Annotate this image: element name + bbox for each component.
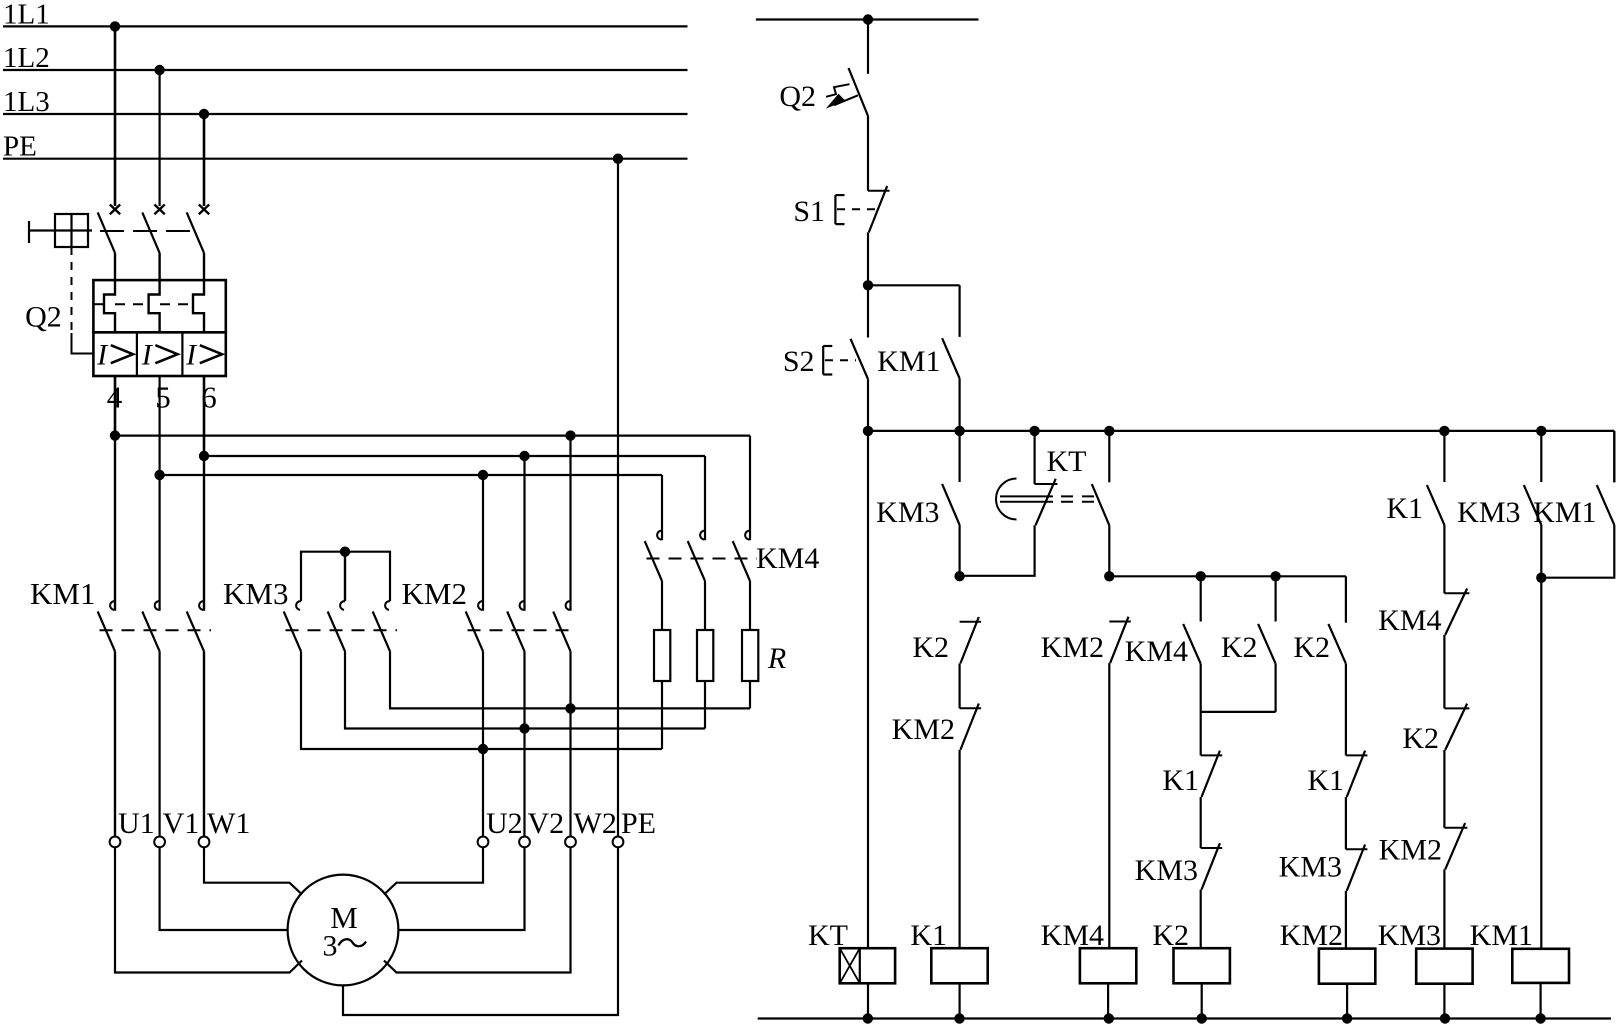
svg-text:KM2: KM2 (402, 576, 467, 611)
terminal number 6 (201, 380, 217, 415)
svg-text:KM4: KM4 (1125, 635, 1188, 668)
time relay KT contact (right) (1092, 431, 1110, 576)
wire motor frame to PE (343, 847, 618, 1015)
breaker Q2 case (93, 280, 225, 376)
svg-text:KM4: KM4 (1041, 919, 1104, 952)
wire phase L2 distribution (160, 475, 662, 540)
svg-text:KM3: KM3 (1135, 854, 1198, 887)
svg-text:KM1: KM1 (30, 576, 95, 611)
relay K2 auxiliary contact (1221, 576, 1276, 712)
node B phase L3 tap (199, 451, 209, 461)
node return rail KT coil (863, 1013, 873, 1023)
breaker Q2 pole 2 release element (149, 280, 160, 332)
svg-text:KM4: KM4 (1378, 604, 1441, 637)
node C phase L2 tap (154, 470, 164, 480)
node rail KM3 branch (954, 426, 964, 436)
breaker Q2 pole 3 fixed contact x-mark (199, 205, 209, 215)
breaker Q2 pole 3 release element (193, 280, 204, 332)
bus 1L3 (3, 86, 688, 118)
start button S2 normally-open contact (783, 285, 868, 431)
wire KM3 left to bus749 (301, 651, 662, 749)
svg-text:S1: S1 (793, 195, 825, 228)
svg-text:W2: W2 (574, 807, 617, 840)
contactor coil KM2 (1280, 919, 1376, 1019)
node phase L2 to KM2 (478, 470, 488, 480)
terminal PE (613, 807, 656, 847)
contactor KM3 auxiliary contact on KM1-coil branch (1457, 431, 1541, 578)
wire sub rail y576 (1109, 576, 1346, 622)
node control supply tap (863, 14, 873, 24)
svg-text:K2: K2 (1293, 631, 1330, 664)
wire W1 to motor (204, 847, 302, 894)
contactor KM3 auxiliary contact (876, 431, 959, 576)
time relay KT delay symbol (996, 479, 1098, 520)
svg-text:R: R (767, 642, 786, 675)
wire U1 to motor (115, 847, 302, 972)
node KM3 star point (340, 547, 350, 557)
wire pole1 to node A (114, 376, 117, 436)
svg-text:3: 3 (323, 930, 338, 963)
svg-text:K2: K2 (1402, 722, 1439, 755)
wire branch to KM1 aux (868, 284, 960, 286)
terminal number 4 (107, 380, 123, 415)
wire phase L1 distribution (115, 436, 750, 541)
wire rail to KT coil (867, 431, 869, 948)
node rail KT right (1104, 426, 1114, 436)
node A phase L1 tap (110, 430, 120, 440)
bus PE (3, 131, 688, 163)
wire KM4/K2 parallel join (1201, 664, 1276, 756)
wire L3 drop to KM2 middle (523, 456, 525, 611)
node on 1L3 (199, 109, 209, 119)
terminal W1 (199, 807, 251, 847)
node sub rail KM4 branch (1196, 571, 1206, 581)
svg-text:KM3: KM3 (876, 496, 939, 529)
contactor KM4 nc contact on KM3-coil branch (1378, 589, 1469, 709)
wire KM3 right to bus708 (390, 651, 750, 708)
wire PE drop (617, 159, 619, 837)
svg-text:KM2: KM2 (892, 713, 955, 746)
svg-text:K1: K1 (1307, 764, 1344, 797)
contactor KM1 holding contact (877, 285, 959, 431)
relay K2 auxiliary contact on KM2-coil branch (1293, 624, 1346, 756)
contactor KM1 main contacts (30, 576, 211, 652)
node rail KM3/KM1 branch (1536, 426, 1546, 436)
node phase L1 to KM2 (565, 430, 575, 440)
breaker Q2 pole 1 fixed contact x-mark (110, 205, 120, 215)
svg-text:V2: V2 (528, 807, 565, 840)
svg-text:S2: S2 (783, 345, 815, 378)
relay K1 auxiliary contact (1386, 431, 1444, 593)
wire KM3 branch to KM1 coil (1540, 578, 1542, 949)
terminal V2 (519, 807, 564, 847)
relay K2 nc contact on KM3-coil branch (1402, 704, 1469, 828)
node on 1L2 (154, 65, 164, 75)
svg-text:KT: KT (1047, 445, 1087, 478)
breaker Q2 release arrow (826, 84, 858, 108)
breaker Q2 pole 1 release element (104, 280, 115, 332)
svg-text:KM2: KM2 (1280, 919, 1343, 952)
wire V2 to motor (398, 847, 524, 930)
wire KM3 star bridge (301, 552, 390, 601)
contactor KM2 nc contact on KM4-coil branch (1041, 617, 1131, 949)
start button S2 operator (823, 346, 856, 375)
wire KM2 outputs to motor terminals (483, 651, 571, 836)
wire pole3 to node B (203, 376, 206, 456)
svg-text:K1: K1 (1162, 764, 1199, 797)
breaker Q2 pole 3 blade (187, 212, 204, 280)
control return rail (758, 1017, 1611, 1019)
svg-text:KM3: KM3 (1279, 851, 1342, 884)
terminal V1 (154, 807, 199, 847)
relay K2 nc contact on K1-coil branch (912, 617, 981, 708)
svg-text:K2: K2 (912, 631, 949, 664)
contactor KM4 auxiliary contact (1125, 576, 1201, 668)
svg-text:K1: K1 (1386, 492, 1423, 525)
breaker Q2 pole linkage (100, 230, 196, 232)
node rail KT column (863, 426, 873, 436)
wire pole2 to node C (159, 376, 161, 475)
svg-text:PE: PE (3, 131, 37, 163)
wire W2 to motor (384, 847, 571, 972)
svg-text:U1: U1 (118, 807, 155, 840)
wire 1L2 to Q2 pole 2 (159, 70, 161, 206)
svg-text:5: 5 (155, 380, 171, 415)
node PE tap (613, 154, 623, 164)
wire KT left bottom link (960, 525, 1035, 576)
node return rail KM4 coil (1104, 1013, 1114, 1023)
contactor coil KM4 (1041, 919, 1137, 1019)
wire U2 to motor (384, 847, 483, 894)
svg-text:W1: W1 (207, 807, 250, 840)
wire L2 drop to KM2 left (482, 475, 484, 611)
node return rail KM1 coil (1535, 1013, 1545, 1023)
relay K1 nc contact on K2-coil branch (1162, 751, 1222, 848)
breaker Q2 overcurrent label I> cell 3 (185, 339, 222, 372)
breaker Q2 overcurrent label I> cell 2 (141, 339, 178, 372)
terminal W2 (565, 807, 617, 847)
svg-text:K1: K1 (910, 919, 947, 952)
wire KM3 mid to bus728 (345, 651, 705, 728)
relay coil K2 (1152, 919, 1230, 1019)
svg-text:KM3: KM3 (1457, 496, 1520, 529)
contactor KM2 nc contact on K1-coil branch (892, 704, 981, 949)
motor M 3-phase (288, 875, 399, 986)
terminal U2 (478, 807, 523, 847)
contactor KM4 main contacts (645, 531, 820, 581)
node return rail K1 coil (954, 1013, 964, 1023)
wire V1 to motor (160, 847, 288, 930)
wire phase L3 distribution (204, 456, 705, 540)
contactor KM2 nc contact on KM3-coil branch (1379, 823, 1468, 949)
breaker Q2 control contact (779, 20, 868, 191)
svg-text:PE: PE (621, 807, 656, 840)
contactor KM3 main contacts (223, 576, 397, 652)
svg-text:KM2: KM2 (1041, 631, 1104, 664)
node return rail KM3 coil (1440, 1013, 1450, 1023)
svg-text:KM4: KM4 (756, 542, 819, 575)
bus 1L1 (3, 0, 688, 31)
wire 1L1 to Q2 pole 1 (114, 26, 117, 206)
wire L1 drop to KM2 right (569, 436, 571, 611)
node KM2 right junction (565, 703, 575, 713)
relay coil K1 (910, 919, 987, 1019)
stop button S1 operator (835, 195, 878, 224)
breaker Q2 pole 2 blade (142, 212, 159, 280)
breaker Q2 pole 2 fixed contact x-mark (154, 205, 164, 215)
contactor coil KM3 (1378, 919, 1473, 1019)
resistor R right (742, 581, 786, 709)
contactor KM3 nc contact on KM2-coil branch (1279, 845, 1368, 949)
resistor R left (654, 581, 670, 749)
svg-text:K2: K2 (1221, 631, 1258, 664)
svg-text:KM3: KM3 (1378, 919, 1441, 952)
node on 1L1 (110, 21, 120, 31)
node KM3/KM1 parallel junction (1536, 573, 1546, 583)
node rail K1 branch (1439, 426, 1449, 436)
breaker Q2 trip linkage (93, 303, 193, 305)
svg-text:U2: U2 (486, 807, 523, 840)
contactor KM1 auxiliary contact (right edge) (1533, 431, 1614, 578)
svg-text:KM2: KM2 (1379, 834, 1442, 867)
svg-text:Q2: Q2 (779, 80, 816, 113)
control supply line (756, 18, 979, 20)
time relay KT delayed contact (left) (1035, 431, 1087, 525)
breaker Q2 overcurrent label I> cell 1 (96, 339, 133, 372)
svg-text:KM1: KM1 (877, 345, 940, 378)
contactor coil KM1 (1470, 919, 1569, 1019)
node sub rail K2 branch (1270, 571, 1280, 581)
control rail (868, 431, 1614, 482)
node phase L3 to KM2 (519, 451, 529, 461)
terminal U1 (110, 807, 155, 847)
contactor KM2 main contacts (402, 576, 578, 652)
svg-text:1L1: 1L1 (3, 0, 50, 31)
bus 1L2 (3, 42, 688, 74)
svg-text:Q2: Q2 (25, 301, 62, 334)
terminal number 5 (155, 380, 171, 415)
wire KM1 outputs to motor terminals (115, 651, 204, 836)
stop button S1 normally-closed contact (793, 186, 889, 285)
wire 1L3 to Q2 pole 3 (203, 114, 206, 206)
relay K1 nc contact on KM2-coil branch (1307, 751, 1367, 850)
svg-text:KM1: KM1 (1470, 919, 1533, 952)
node KM2 mid junction (519, 723, 529, 733)
svg-text:1L3: 1L3 (3, 86, 50, 118)
svg-text:KM1: KM1 (1533, 496, 1596, 529)
svg-text:V1: V1 (163, 807, 200, 840)
node return rail KM2 coil (1342, 1013, 1352, 1023)
time relay coil KT (808, 919, 895, 1019)
svg-text:K2: K2 (1152, 919, 1189, 952)
node KM3/KT junction (954, 571, 964, 581)
breaker Q2 pole 1 blade (98, 212, 115, 280)
circuit breaker Q2 manual operator (25, 214, 93, 354)
resistor R middle (697, 581, 713, 729)
node S1 to S2/KM1 branch (863, 280, 873, 290)
svg-text:KT: KT (808, 919, 848, 952)
node return rail K2 coil (1197, 1013, 1207, 1023)
svg-text:KM3: KM3 (223, 576, 288, 611)
node rail KT left (1029, 426, 1039, 436)
node KT right junction (1104, 571, 1114, 581)
contactor KM3 nc contact on K2-coil branch (1135, 843, 1223, 948)
wire KM1 feeds (115, 436, 204, 611)
svg-text:1L2: 1L2 (3, 42, 50, 74)
node KM2 left junction (478, 744, 488, 754)
